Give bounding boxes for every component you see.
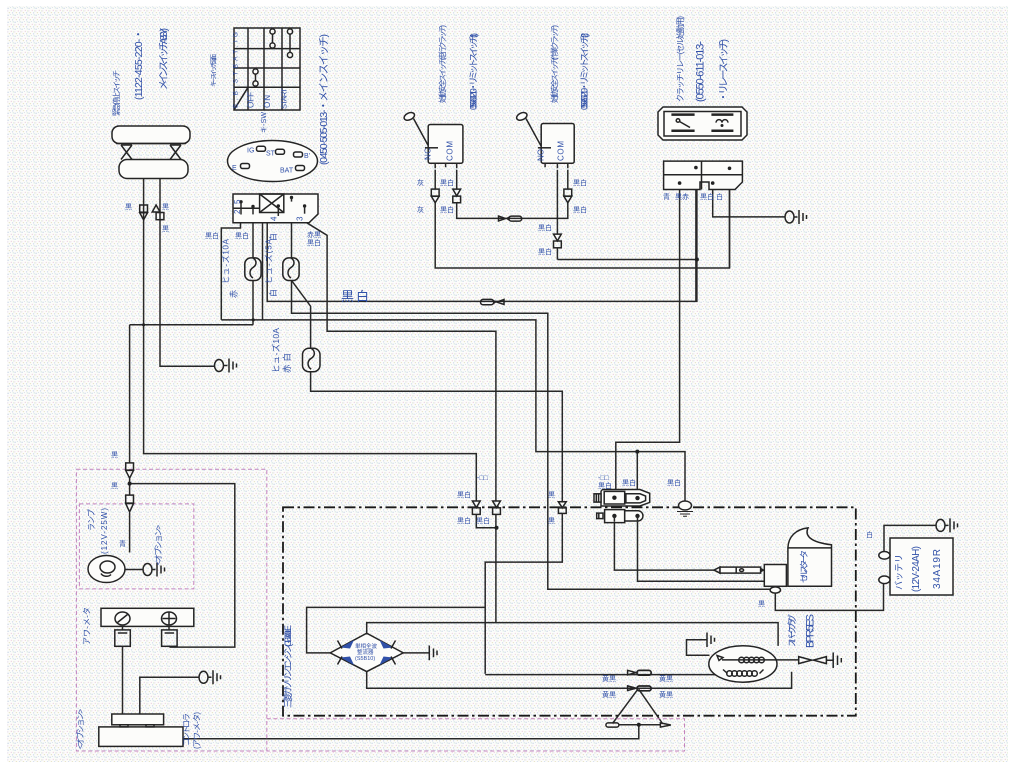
svg-text:IG: IG	[247, 148, 254, 155]
svg-text:BPR5ES: BPR5ES	[805, 614, 817, 648]
svg-text:白: 白	[268, 289, 278, 297]
svg-text:START: START	[280, 88, 289, 109]
svg-text:(アワ-メ-タ): (アワ-メ-タ)	[193, 712, 202, 749]
svg-text:黒: 黒	[162, 203, 169, 211]
svg-text:黒白: 黒白	[205, 231, 219, 240]
svg-text:ヒュ-ズ10A: ヒュ-ズ10A	[271, 328, 281, 373]
svg-text:黒: 黒	[548, 491, 555, 499]
svg-text:コントロ-ラ: コントロ-ラ	[182, 713, 191, 746]
svg-text:・リレースイッチ): ・リレースイッチ)	[718, 39, 730, 102]
svg-text:キースイッチ図面: キースイッチ図面	[210, 54, 218, 88]
svg-text:黒白: 黒白	[341, 289, 369, 304]
svg-text:ヒュ-ズ(5A: ヒュ-ズ(5A	[264, 238, 274, 284]
svg-text:灰: 灰	[417, 205, 424, 214]
svg-text:黒白: 黒白	[457, 516, 471, 525]
svg-text:アワ-メ-タ: アワ-メ-タ	[83, 607, 92, 645]
svg-text:OFF: OFF	[247, 92, 256, 108]
svg-text:白: 白	[268, 233, 278, 241]
svg-text:<オプション>: <オプション>	[76, 709, 85, 749]
svg-text:黒: 黒	[548, 517, 555, 525]
svg-text:ヒュ-ズ10A: ヒュ-ズ10A	[221, 238, 231, 284]
svg-text:白: 白	[716, 192, 723, 201]
svg-text:三菱ガソリンエンジン(GB300LE: 三菱ガソリンエンジン(GB300LE	[282, 625, 293, 708]
svg-text:(S5B10): (S5B10)	[355, 656, 375, 662]
svg-text:(0450-505-013-・メインスイッチ): (0450-505-013-・メインスイッチ)	[318, 34, 330, 165]
svg-text:黒白: 黒白	[476, 516, 490, 525]
svg-text:COM: COM	[446, 141, 455, 161]
svg-text:セルスタータ: セルスタータ	[799, 550, 809, 583]
svg-text:34A19R: 34A19R	[932, 549, 943, 589]
svg-text:黒白: 黒白	[457, 490, 471, 499]
svg-text:黒白: 黒白	[538, 223, 552, 232]
svg-text:2: 2	[233, 209, 242, 214]
svg-text:黒赤: 黒赤	[675, 193, 689, 201]
svg-text:ランプ: ランプ	[87, 509, 96, 531]
svg-text:E: E	[232, 165, 237, 172]
svg-text:黒白: 黒白	[307, 238, 321, 247]
svg-text:COM: COM	[557, 141, 566, 161]
svg-text:クラッチリレー(セル始動用): クラッチリレー(セル始動用)	[675, 16, 685, 102]
svg-text:黒白: 黒白	[235, 231, 249, 240]
svg-text:黒白: 黒白	[622, 478, 636, 487]
svg-text:スパークプラグ: スパークプラグ	[787, 614, 797, 647]
svg-text:(12V-25W): (12V-25W)	[100, 508, 109, 554]
svg-text:黒白: 黒白	[440, 178, 454, 187]
svg-text:白: 白	[866, 530, 873, 539]
svg-text:黒白: 黒白	[440, 205, 454, 214]
svg-text:4: 4	[270, 216, 279, 221]
svg-text:-□□: -□□	[598, 475, 610, 482]
svg-text:(1122-455-220-・: (1122-455-220-・	[133, 29, 145, 100]
svg-text:黄黒: 黄黒	[659, 674, 673, 683]
svg-text:黒白: 黒白	[538, 247, 552, 256]
svg-text:整流器: 整流器	[357, 648, 374, 656]
svg-text:0550-611-210-・リミットスイッチ(1): 0550-611-210-・リミットスイッチ(1)	[469, 33, 479, 110]
svg-text:メインスイッチASSY): メインスイッチASSY)	[158, 28, 170, 90]
svg-text:5: 5	[233, 199, 242, 204]
svg-text:黒: 黒	[111, 482, 118, 490]
svg-text:黄黒: 黄黒	[659, 690, 673, 699]
svg-text:青: 青	[663, 192, 670, 201]
svg-text:黄黒: 黄黒	[602, 674, 616, 683]
svg-text:黒: 黒	[758, 600, 765, 608]
svg-text:緊急停止スイッチ: 緊急停止スイッチ	[111, 70, 121, 116]
svg-text:黒白: 黒白	[573, 205, 587, 214]
svg-text:黒: 黒	[111, 451, 118, 459]
svg-text:(0550-611-013-: (0550-611-013-	[695, 41, 707, 102]
svg-text:ST: ST	[266, 151, 276, 158]
svg-text:黒白: 黒白	[700, 192, 714, 201]
svg-text:BAT: BAT	[280, 168, 294, 175]
svg-text:黄黒: 黄黒	[602, 690, 616, 699]
svg-text:NC: NC	[424, 148, 433, 160]
svg-text:赤: 赤	[230, 290, 239, 298]
svg-text:(12V-24AH): (12V-24AH)	[911, 546, 922, 592]
svg-text:-□□: -□□	[477, 475, 489, 482]
svg-text:黒白: 黒白	[667, 478, 681, 487]
svg-text:<オプション>: <オプション>	[154, 525, 163, 565]
svg-text:赤黒: 赤黒	[307, 231, 321, 239]
svg-text:0550-651-210-・リミットスイッチ(2): 0550-651-210-・リミットスイッチ(2)	[580, 33, 590, 110]
svg-text:始動安全スイッチ(走行クラッチ): 始動安全スイッチ(走行クラッチ)	[437, 25, 447, 104]
svg-text:3: 3	[296, 216, 305, 221]
svg-text:黒白: 黒白	[598, 481, 612, 490]
svg-text:キ-SW: キ-SW	[261, 112, 268, 133]
svg-text:青: 青	[119, 539, 126, 548]
svg-text:黒白: 黒白	[573, 178, 587, 187]
svg-text:灰: 灰	[417, 178, 424, 187]
svg-text:B': B'	[304, 153, 310, 160]
svg-text:単相全波: 単相全波	[355, 642, 378, 650]
svg-text:ON: ON	[263, 95, 272, 108]
svg-text:黒: 黒	[162, 225, 169, 233]
svg-text:黒: 黒	[125, 203, 132, 211]
svg-text:バッテリ: バッテリ	[894, 554, 904, 590]
svg-text:NO: NO	[537, 149, 546, 161]
svg-text:始動安全スイッチ(作業クラッチ): 始動安全スイッチ(作業クラッチ)	[549, 25, 559, 104]
